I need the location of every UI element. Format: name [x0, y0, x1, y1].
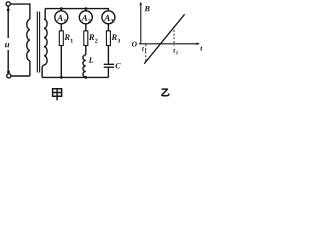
wire A1 to R1: [60, 24, 62, 31]
label O origin: [132, 42, 137, 47]
bottom bus wire: [42, 76, 108, 78]
label t: [200, 46, 202, 50]
resistor R1: [59, 31, 63, 46]
dashed line t2: [173, 26, 175, 45]
transformer core: [37, 12, 39, 73]
junction dot above bottom terminal: [7, 71, 10, 74]
t axis arrowhead: [196, 42, 200, 45]
top bus wire: [45, 9, 108, 11]
graph line B(t): [144, 14, 184, 63]
wire left lower: [7, 50, 9, 74]
wire A2 stub top: [85, 9, 87, 11]
resistor R3: [106, 31, 110, 46]
wire R3 to C: [107, 46, 109, 64]
node dot bus-R1: [60, 76, 63, 79]
terminal top-left: [6, 2, 10, 6]
inductor L: [83, 55, 86, 78]
graph B axis: [140, 3, 142, 44]
node dot bus-L: [84, 76, 87, 79]
resistor R2: [84, 31, 88, 46]
label t2: [173, 49, 175, 53]
label jia (Chinese, circuit): [53, 89, 62, 101]
wire bottom left: [11, 75, 30, 77]
ammeter A2: [79, 11, 92, 24]
graph t axis: [139, 43, 198, 45]
wire R2 to L: [85, 46, 87, 55]
node dot bus-A2: [84, 7, 87, 10]
wire C to bottom bus: [107, 67, 109, 77]
junction dot below top terminal: [7, 9, 10, 12]
label yi (Chinese, graph): [162, 89, 169, 96]
ammeter A1: [55, 11, 68, 24]
wire A3 to R3: [107, 24, 109, 31]
wire top from terminal to transformer primary: [10, 4, 30, 19]
transformer primary winding: [27, 19, 30, 76]
node dot bus-A1: [60, 7, 63, 10]
wire A1 stub top: [60, 9, 62, 11]
transformer secondary winding: [42, 9, 47, 78]
terminal bottom-left: [7, 74, 11, 78]
label u: [5, 43, 9, 47]
label t1: [142, 47, 144, 51]
dashed line t1: [145, 44, 147, 61]
label B: [145, 6, 150, 11]
wire A2 to R2: [85, 24, 87, 31]
wire left upper: [7, 6, 9, 38]
capacitor C: [104, 64, 114, 67]
wire R1 to bottom bus: [60, 46, 62, 78]
B axis arrowhead: [139, 2, 142, 6]
ammeter A3: [102, 11, 115, 24]
